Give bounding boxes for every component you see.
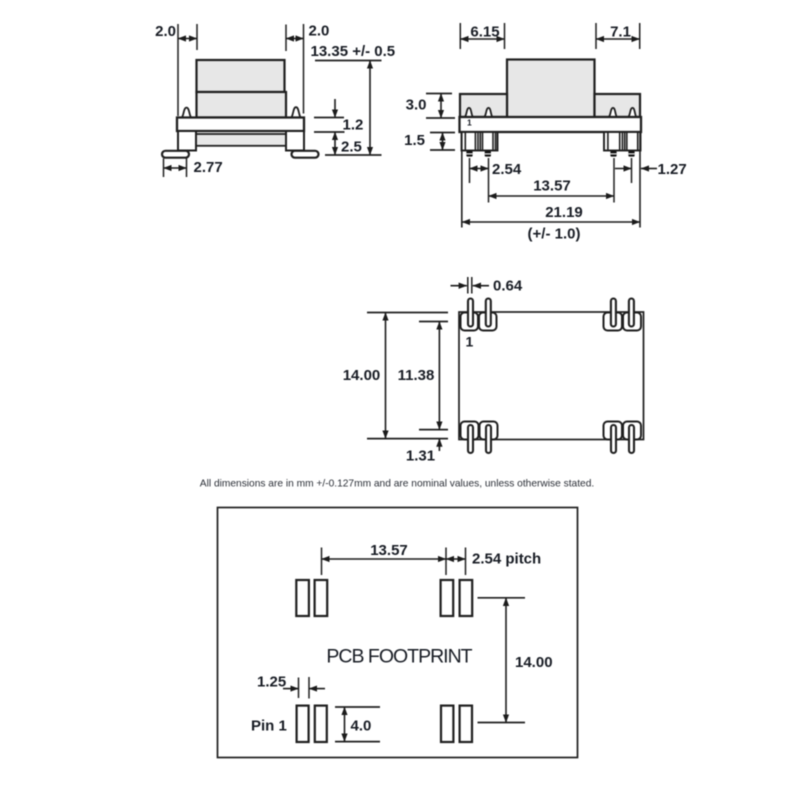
footprint: pad top-right 1 xyxy=(441,580,454,616)
svg-text:1.31: 1.31 xyxy=(406,448,435,465)
front view: right pin block inner lines xyxy=(608,132,638,151)
top view: pad top-right 2 xyxy=(623,313,641,331)
dim 14.00 footprint: vertical dimension line xyxy=(505,598,507,723)
dim 14.00 footprint: upper reference line xyxy=(478,597,526,599)
svg-text:7.1: 7.1 xyxy=(610,24,631,41)
svg-text:3.0: 3.0 xyxy=(406,97,427,114)
dim 4.0: double arrow xyxy=(344,707,346,742)
svg-text:14.00: 14.00 xyxy=(515,654,553,671)
dim 0.64: slot edge ticks xyxy=(467,277,469,294)
svg-text:13.57: 13.57 xyxy=(370,542,408,559)
svg-text:21.19: 21.19 xyxy=(545,204,583,221)
svg-text:(+/- 1.0): (+/- 1.0) xyxy=(528,226,581,243)
dim 2.0 right: extension line at body right edge xyxy=(285,25,287,52)
svg-text:2.0: 2.0 xyxy=(309,23,330,40)
dim 21.19: dimension line xyxy=(462,221,640,223)
top view: package body outline xyxy=(459,312,644,440)
top view: pad bottom-right 2 xyxy=(623,422,641,440)
front view: right pin solder nub 2 xyxy=(628,151,634,157)
top view: pin slot top 1 xyxy=(468,299,473,327)
dim 2.77: right tick xyxy=(186,159,188,178)
dim 2.54 pitch: arrow xyxy=(446,558,466,560)
svg-text:0.64: 0.64 xyxy=(493,278,523,295)
dim 2.0 left: extension line at body left edge xyxy=(196,24,198,50)
dim 2.54: left tick xyxy=(469,158,471,183)
dim 7.1: arrow xyxy=(596,38,640,40)
front view: left body extension line down xyxy=(461,132,463,228)
dim 2.77: left tick xyxy=(163,159,165,178)
dim 1.5: upper tick line xyxy=(430,132,455,134)
side view: right gull-wing foot xyxy=(292,151,319,158)
front view: left shoulder xyxy=(460,94,507,117)
dim 1.2: upper tick line xyxy=(314,117,344,119)
footprint: pad top-left 1 xyxy=(296,580,309,616)
dim 3.0: double arrow xyxy=(440,94,442,119)
dim 7.1: left tick xyxy=(595,23,597,49)
front view: header band xyxy=(460,117,642,132)
top view: pin slot bottom 2 xyxy=(486,425,491,453)
dim 1.25: right tick xyxy=(308,677,310,699)
dim 0.64: left arrow xyxy=(451,285,467,287)
dim 1.5: lower tick line xyxy=(430,149,455,151)
top view: pin slot top 4 xyxy=(629,299,634,327)
front view: right shoulder xyxy=(595,94,641,117)
svg-text:13.57: 13.57 xyxy=(533,178,571,195)
top view: pin slot top 3 xyxy=(611,299,616,327)
dim 6.15: arrow xyxy=(460,38,504,40)
dim 6.15: right tick xyxy=(504,23,506,49)
dim 1.25: left tick xyxy=(298,678,300,699)
front view: right pin solder nub 1 xyxy=(610,151,616,157)
svg-text:Pin 1: Pin 1 xyxy=(251,718,287,735)
footprint: pad bottom-right 2 xyxy=(460,706,472,742)
dim 3.0: upper tick line xyxy=(426,93,452,95)
dim right pitch arrow xyxy=(615,168,632,170)
side view: right lead peak on header xyxy=(291,107,302,118)
dim 2.54: right tick xyxy=(488,158,490,203)
side view: module body middle block xyxy=(197,92,287,118)
top view: pin slot bottom 1 xyxy=(468,425,473,453)
footprint: pad top-left 2 xyxy=(315,580,328,616)
dim 13.35: vertical dimension line xyxy=(369,61,371,156)
svg-text:13.35 +/- 0.5: 13.35 +/- 0.5 xyxy=(311,43,396,60)
svg-text:2.0: 2.0 xyxy=(155,23,176,40)
dim 1.5: double arrow xyxy=(442,133,444,151)
footprint: pad top-right 2 xyxy=(460,580,473,616)
svg-text:1.27: 1.27 xyxy=(658,161,687,178)
svg-text:1.2: 1.2 xyxy=(343,117,364,134)
dim 1.31: up arrow xyxy=(438,439,440,451)
front view: left pin block inner lines xyxy=(465,132,495,151)
dim right pitch tick xyxy=(631,158,633,183)
side view: module body top block xyxy=(197,60,285,92)
top view: pad bottom-right 1 xyxy=(604,422,623,440)
dim 4.0: upper reference line xyxy=(335,706,380,708)
front view: left pin block xyxy=(462,132,498,151)
svg-text:1.5: 1.5 xyxy=(404,132,425,149)
top view: pad bottom-left 1 xyxy=(461,422,479,440)
dim 2.0 left: arrow xyxy=(178,38,197,40)
dim 13.35: top reference line xyxy=(315,60,382,62)
side view: header band xyxy=(177,118,304,132)
svg-text:4.0: 4.0 xyxy=(351,718,372,735)
svg-text:11.38: 11.38 xyxy=(398,367,435,384)
dim 11.38: vertical dimension line xyxy=(438,322,440,430)
dim 3.0: lower tick line xyxy=(426,117,455,119)
front view: left pin solder nub 1 xyxy=(466,151,472,157)
dim 1.27: arrow pointing left xyxy=(641,168,657,170)
dim 13.57 footprint: left tick xyxy=(321,548,323,576)
footprint: pad bottom-left 1 xyxy=(297,706,309,742)
dim 13.57 footprint: dimension line xyxy=(322,558,447,560)
front view: lead peak pin2 xyxy=(484,108,494,118)
dim 14.00 top view: lower reference line xyxy=(367,438,448,440)
dim 0.64: right arrow xyxy=(473,285,489,287)
dim 1.25: left arrow xyxy=(283,688,299,690)
dim 1.2: down arrow above xyxy=(334,99,336,118)
dim 2.0 right: extension line at band right edge xyxy=(303,24,305,114)
svg-text:2.77: 2.77 xyxy=(194,159,223,176)
dim 2.54: arrow xyxy=(470,168,489,170)
top view: pin slot bottom 3 xyxy=(611,425,616,453)
side view: left standoff post xyxy=(178,131,196,151)
dim 7.1: right extension line xyxy=(639,23,641,49)
footprint: pad bottom-right 1 xyxy=(441,706,453,742)
top view: pad top-left 1 xyxy=(461,313,479,331)
dim 6.15: left extension line xyxy=(459,23,461,49)
dim 2.54 pitch: right tick xyxy=(465,548,467,576)
dim 14.00 footprint: lower reference line xyxy=(478,722,526,724)
svg-text:PCB FOOTPRINT: PCB FOOTPRINT xyxy=(326,646,472,668)
front view: left pin solder nub 2 xyxy=(485,151,491,157)
dim 13.57: dimension line xyxy=(489,195,615,197)
front view: right body extension line down xyxy=(639,132,641,228)
svg-text:2.5: 2.5 xyxy=(341,139,362,156)
front view: lead peak right b xyxy=(628,108,638,118)
svg-text:1.25: 1.25 xyxy=(257,674,286,691)
dim 2.5: double arrow xyxy=(334,132,336,155)
side view: right standoff post xyxy=(286,131,304,151)
svg-text:6.15: 6.15 xyxy=(470,24,499,41)
dim 11.38: upper reference line xyxy=(419,321,448,323)
dim 2.77: arrow xyxy=(164,167,187,169)
svg-text:All dimensions are in mm +/-0.: All dimensions are in mm +/-0.127mm and … xyxy=(200,479,594,490)
top view: pad top-left 2 xyxy=(479,313,497,331)
top view: pin slot top 2 xyxy=(486,299,491,327)
dim 2.5: bottom seating plane line xyxy=(325,154,382,156)
dim 13.57 footprint: right tick xyxy=(445,548,447,576)
side view: lower grey block xyxy=(196,134,286,146)
dim 14.00 top view: vertical dimension line xyxy=(385,313,387,439)
dim 4.0: lower reference line xyxy=(335,741,380,743)
front view: raised centre block xyxy=(507,60,595,118)
footprint: pad bottom-left 2 xyxy=(315,706,327,742)
dim 14.00 top view: upper reference line xyxy=(367,312,448,314)
svg-text:2.54: 2.54 xyxy=(492,161,522,178)
svg-text:1: 1 xyxy=(467,118,472,128)
svg-text:14.00: 14.00 xyxy=(343,367,381,384)
front view: lead peak pin1 xyxy=(464,108,474,118)
side view: left lead peak on header xyxy=(181,108,192,118)
front view: lead peak right a xyxy=(608,108,618,118)
dim 1.2: lower tick line xyxy=(314,131,345,133)
side view: left gull-wing foot xyxy=(162,151,189,158)
dim 13.57 right tick xyxy=(613,158,615,203)
dim 2.0 right: arrow xyxy=(286,38,304,40)
dim 1.25: right arrow xyxy=(309,688,325,690)
svg-text:2.54 pitch: 2.54 pitch xyxy=(472,551,541,568)
top view: pin slot bottom 4 xyxy=(629,425,634,453)
svg-text:1: 1 xyxy=(466,334,474,350)
dim 11.38: lower reference line xyxy=(419,429,448,431)
dim 2.0 left: extension line at band left edge xyxy=(177,24,179,116)
top view: pad top-right 1 xyxy=(604,313,623,331)
front view: right pin block xyxy=(604,132,641,151)
footprint: border box xyxy=(218,508,578,758)
top view: pad bottom-left 2 xyxy=(480,422,498,440)
